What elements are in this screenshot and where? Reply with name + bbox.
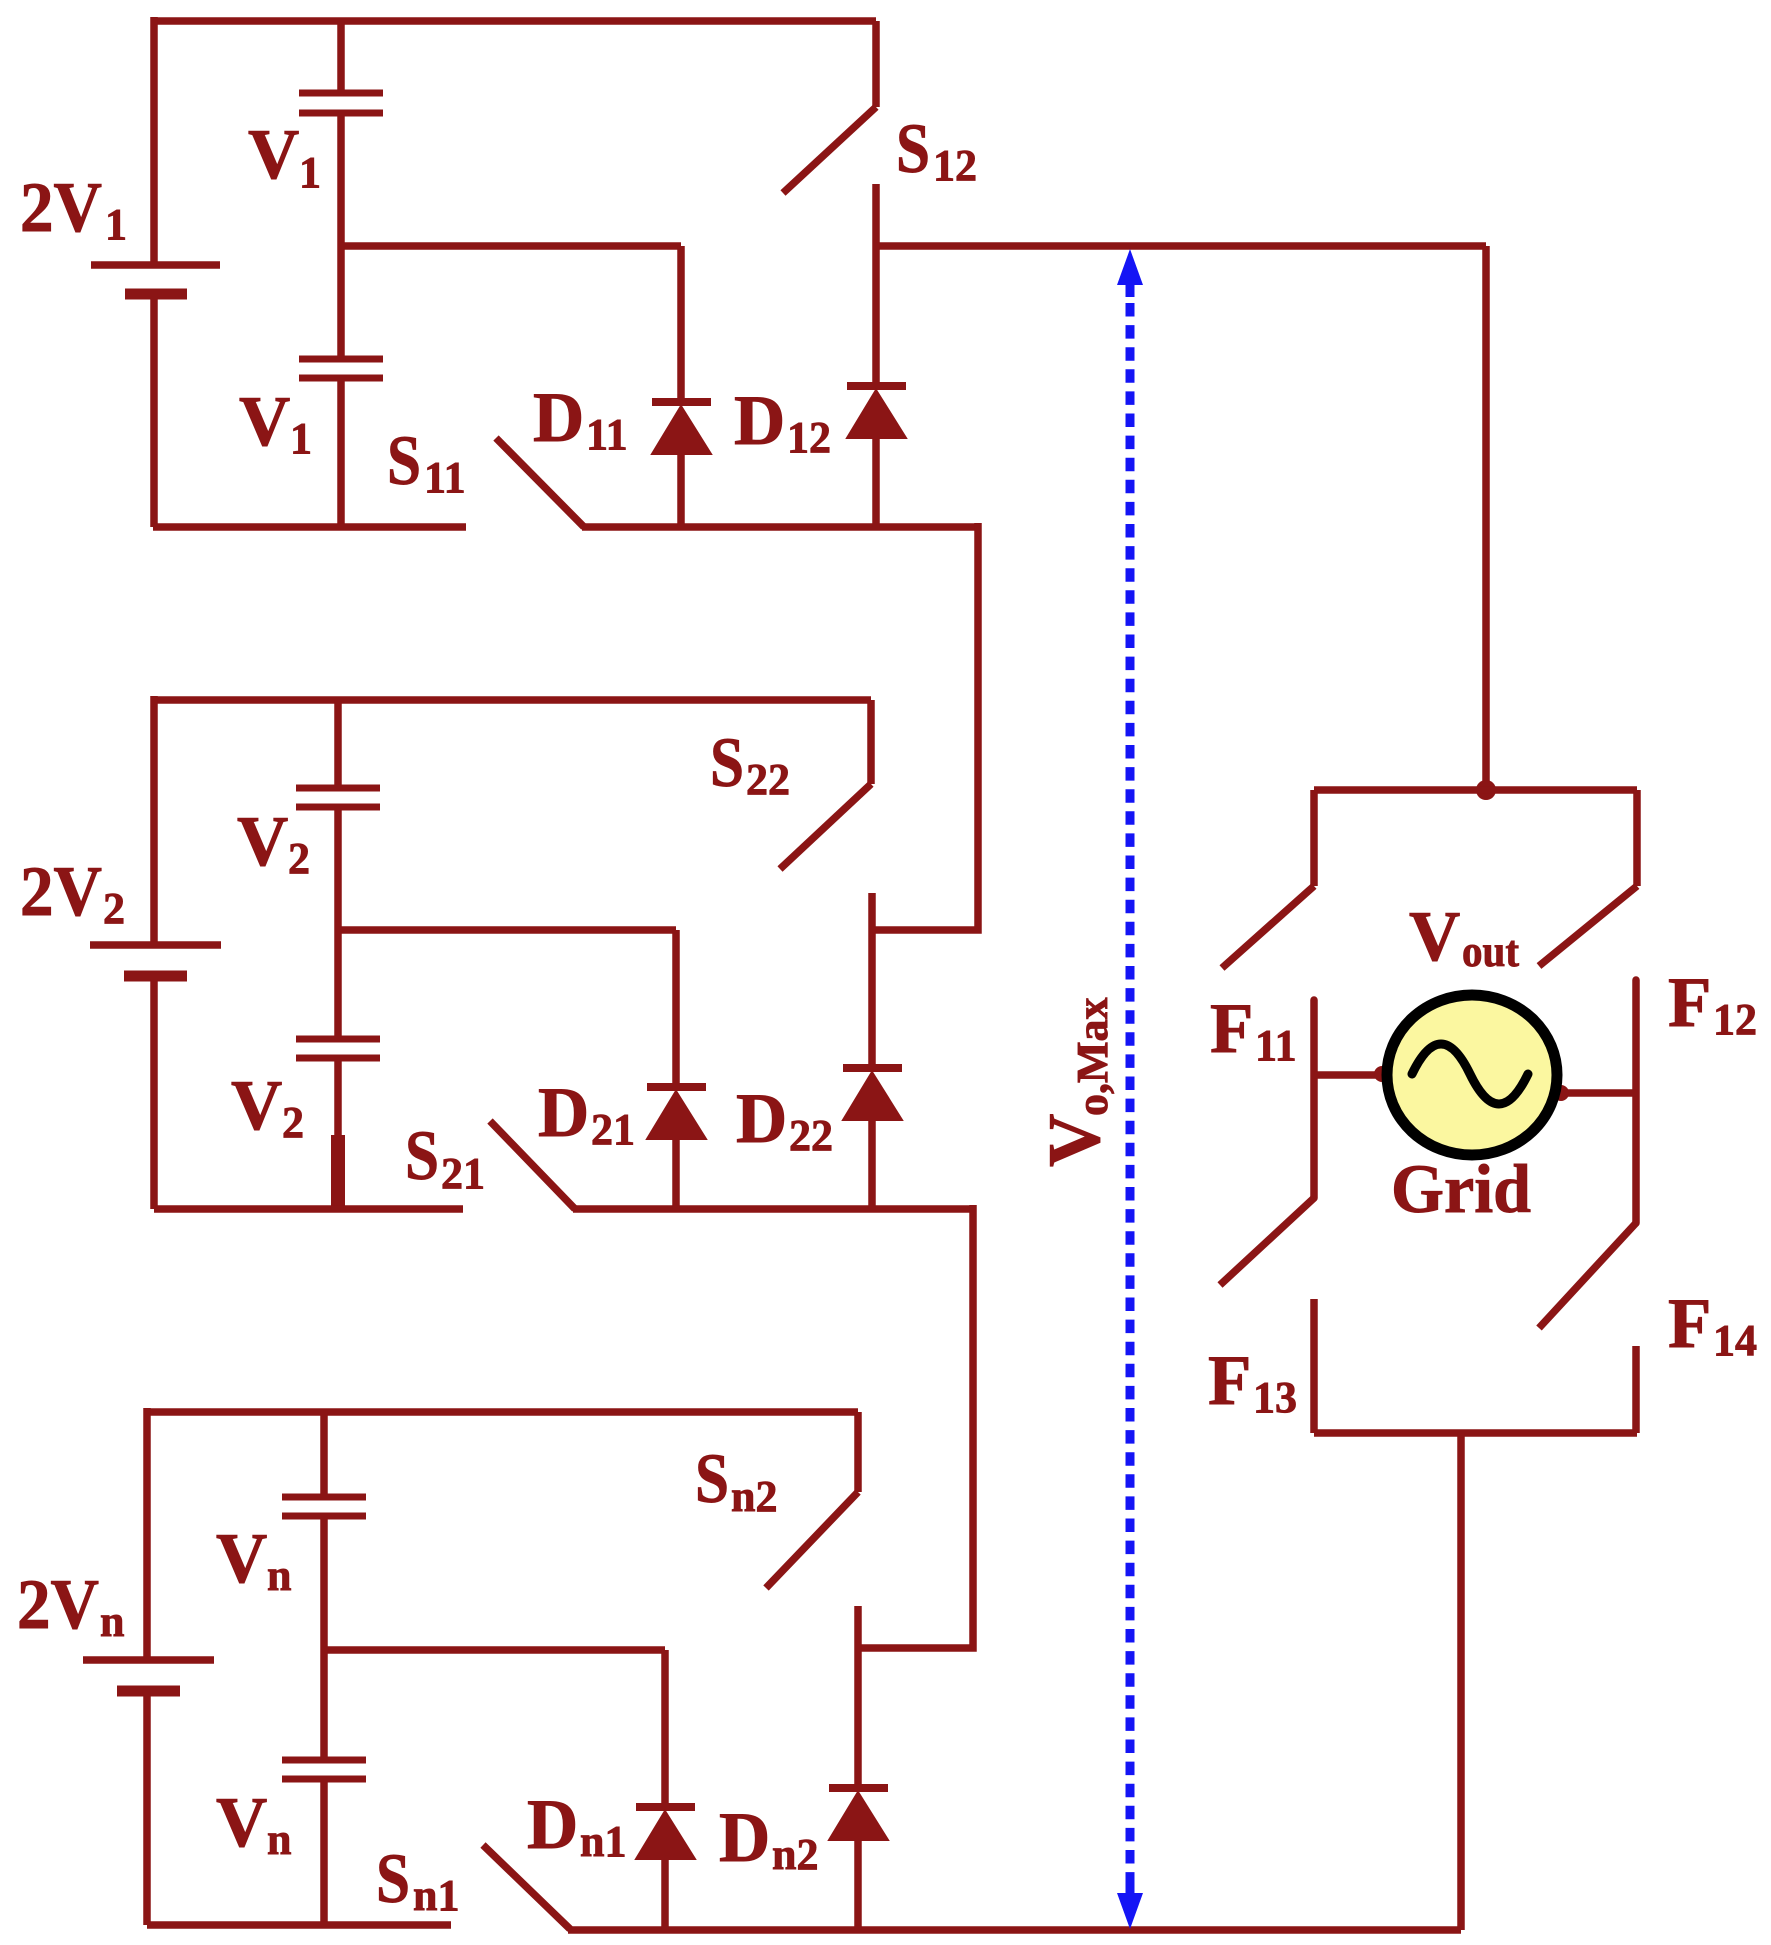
wire capacitor V1 upper to mid node bbox=[337, 116, 345, 246]
label Dn2 bbox=[719, 1799, 818, 1879]
capacitor Vn upper cell n bbox=[282, 1497, 366, 1516]
wire left branch cell 1 lower bbox=[150, 297, 158, 527]
battery 2V1 bbox=[91, 265, 220, 294]
svg-text:11: 11 bbox=[586, 410, 628, 459]
svg-text:n: n bbox=[267, 1551, 291, 1600]
wire D21 riser bbox=[672, 930, 680, 1085]
svg-text:D: D bbox=[533, 379, 584, 457]
svg-text:14: 14 bbox=[1713, 1316, 1757, 1365]
node grid right bbox=[1553, 1085, 1569, 1101]
diode D21 bbox=[647, 1087, 706, 1209]
svg-text:11: 11 bbox=[1255, 1021, 1297, 1070]
svg-text:V: V bbox=[1034, 1114, 1116, 1167]
label V1 upper cell 1 bbox=[248, 116, 321, 197]
wire mid node to lower capacitor cell n bbox=[320, 1650, 328, 1757]
svg-text:Grid: Grid bbox=[1391, 1151, 1531, 1227]
wire left branch cell n upper bbox=[143, 1408, 151, 1657]
wire capacitor V2 lower to bottom rail bbox=[334, 1061, 342, 1209]
wire Dn1 riser bbox=[661, 1650, 669, 1805]
svg-text:n: n bbox=[100, 1597, 124, 1646]
capacitor V2 upper cell 2 bbox=[296, 788, 380, 807]
wire bottom rail cell n right bbox=[568, 1926, 1461, 1934]
arrowhead bottom bbox=[1117, 1881, 1143, 1929]
wire top rail cell 2 bbox=[154, 696, 871, 704]
wire grid right lead bbox=[1558, 1089, 1636, 1097]
svg-text:S: S bbox=[387, 422, 421, 500]
label S12 bbox=[896, 110, 977, 190]
capacitor V1 upper cell 1 bbox=[299, 93, 383, 113]
wire left branch cell n lower bbox=[143, 1694, 151, 1925]
label F11 bbox=[1210, 990, 1297, 1070]
wire capacitor branch cell n top bbox=[320, 1412, 328, 1494]
switch Sn2 bbox=[766, 1412, 858, 1650]
wire D11 riser bbox=[677, 246, 685, 400]
svg-text:1: 1 bbox=[290, 414, 312, 463]
wire capacitor Vn upper to mid node bbox=[320, 1519, 328, 1650]
svg-text:21: 21 bbox=[441, 1149, 485, 1198]
svg-text:22: 22 bbox=[789, 1111, 833, 1160]
wire H-bridge top rail bbox=[1314, 786, 1637, 794]
switch F13 bbox=[1220, 1198, 1314, 1433]
svg-text:2: 2 bbox=[103, 884, 125, 933]
switch S22 bbox=[780, 700, 872, 930]
svg-text:D: D bbox=[736, 1080, 787, 1158]
svg-text:n2: n2 bbox=[731, 1472, 777, 1521]
battery 2V2 bbox=[90, 945, 221, 976]
svg-text:2: 2 bbox=[288, 834, 310, 883]
wire bottom rail cell n left bbox=[147, 1921, 451, 1929]
wire capacitor branch cell 1 top bbox=[337, 21, 345, 90]
svg-text:S: S bbox=[710, 724, 744, 802]
wire left branch cell 2 upper bbox=[150, 696, 158, 942]
svg-text:1: 1 bbox=[105, 200, 127, 249]
wire mid node rail cell n bbox=[324, 1646, 665, 1654]
wire mid node rail cell 2 bbox=[338, 926, 676, 934]
svg-text:12: 12 bbox=[933, 141, 977, 190]
wire grid left lead bbox=[1314, 1071, 1381, 1079]
wire bottom rail cell 1 left bbox=[153, 523, 466, 531]
wire left branch cell 2 lower bbox=[150, 979, 158, 1209]
svg-text:2V: 2V bbox=[20, 853, 102, 931]
wire capacitor V2 upper to mid node bbox=[334, 810, 342, 930]
svg-text:V: V bbox=[216, 1784, 267, 1862]
wire capacitor branch cell 2 top bbox=[334, 700, 342, 785]
wire Dn2 riser bbox=[854, 1650, 862, 1786]
diode D11 bbox=[652, 402, 711, 527]
wire mid node to lower capacitor cell 2 bbox=[334, 930, 342, 1036]
label D12 bbox=[734, 382, 831, 462]
svg-text:D: D bbox=[734, 382, 785, 460]
svg-text:V: V bbox=[216, 1520, 267, 1598]
wire H-bridge bottom rail bbox=[1314, 1429, 1637, 1437]
wire left branch cell 1 upper bbox=[150, 17, 158, 262]
node grid left bbox=[1374, 1066, 1390, 1082]
wire bottom rail cell 2 right bbox=[573, 1205, 973, 1213]
diode D22 bbox=[843, 1068, 902, 1209]
label V2 lower cell 2 bbox=[231, 1067, 304, 1147]
svg-text:S: S bbox=[405, 1117, 439, 1195]
label 2V2 bbox=[20, 853, 125, 933]
label Sn2 bbox=[695, 1440, 777, 1521]
node H-bridge top junction bbox=[1476, 780, 1496, 800]
label Vn upper cell n bbox=[216, 1520, 291, 1600]
label Grid bbox=[1391, 1151, 1531, 1227]
diode Dn2 bbox=[829, 1788, 888, 1930]
wire thick contact bar cell 2 bbox=[331, 1135, 345, 1209]
svg-text:n2: n2 bbox=[772, 1830, 818, 1879]
label D21 bbox=[538, 1074, 635, 1154]
svg-text:22: 22 bbox=[746, 755, 790, 804]
switch S21 bbox=[490, 1121, 575, 1209]
label 2Vn bbox=[17, 1566, 124, 1646]
wire bottom rail cell 2 left bbox=[154, 1205, 463, 1213]
label Vout bbox=[1409, 898, 1519, 976]
label S11 bbox=[387, 422, 466, 502]
svg-text:13: 13 bbox=[1253, 1373, 1297, 1422]
svg-text:out: out bbox=[1462, 927, 1519, 976]
svg-text:2V: 2V bbox=[17, 1566, 99, 1644]
svg-text:o,Max: o,Max bbox=[1068, 997, 1117, 1116]
svg-text:D: D bbox=[527, 1786, 578, 1864]
svg-text:F: F bbox=[1668, 1285, 1711, 1363]
wire S12 output rail to H-bridge bbox=[876, 242, 1486, 250]
label Vo,Max rotated bbox=[1034, 997, 1117, 1167]
wire D22 riser bbox=[868, 930, 876, 1066]
svg-text:V: V bbox=[248, 116, 299, 194]
switch F14 bbox=[1539, 1223, 1636, 1433]
svg-text:V: V bbox=[239, 383, 290, 461]
wire H-bridge left column bbox=[1310, 1000, 1318, 1198]
label V1 lower cell 1 bbox=[239, 383, 312, 463]
svg-text:S: S bbox=[376, 1840, 410, 1918]
svg-text:F: F bbox=[1208, 1342, 1251, 1420]
label D11 bbox=[533, 379, 628, 459]
svg-text:S: S bbox=[695, 1440, 729, 1518]
svg-text:F: F bbox=[1668, 964, 1711, 1042]
svg-text:2V: 2V bbox=[20, 169, 102, 247]
label F12 bbox=[1668, 964, 1757, 1044]
label Sn1 bbox=[376, 1840, 459, 1920]
svg-text:F: F bbox=[1210, 990, 1253, 1068]
battery 2Vn bbox=[83, 1660, 214, 1691]
svg-text:V: V bbox=[1409, 898, 1460, 976]
label Dn1 bbox=[527, 1786, 626, 1866]
label S21 bbox=[405, 1117, 485, 1198]
capacitor V1 lower cell 1 bbox=[299, 359, 383, 378]
switch Sn1 bbox=[483, 1845, 570, 1929]
label F14 bbox=[1668, 1285, 1757, 1365]
sine wave symbol bbox=[1412, 1044, 1528, 1104]
switch S11 bbox=[496, 438, 584, 527]
svg-text:V: V bbox=[231, 1067, 282, 1145]
wire H-bridge output drop bbox=[1457, 1433, 1465, 1930]
svg-text:12: 12 bbox=[1713, 995, 1757, 1044]
svg-text:D: D bbox=[538, 1074, 589, 1152]
wire top rail cell 1 bbox=[153, 17, 876, 25]
svg-text:V: V bbox=[237, 803, 288, 881]
switch S12 bbox=[783, 21, 876, 246]
source Grid circle bbox=[1387, 995, 1557, 1155]
label S22 bbox=[710, 724, 790, 804]
label V2 upper cell 2 bbox=[237, 803, 310, 883]
svg-text:n1: n1 bbox=[580, 1817, 626, 1866]
switch F11 bbox=[1222, 790, 1314, 968]
svg-text:1: 1 bbox=[299, 148, 321, 197]
label F13 bbox=[1208, 1342, 1297, 1422]
svg-text:n: n bbox=[267, 1815, 291, 1864]
label D22 bbox=[736, 1080, 833, 1160]
capacitor V2 lower cell 2 bbox=[296, 1039, 380, 1058]
svg-text:S: S bbox=[896, 110, 930, 188]
wire H-bridge input drop bbox=[1482, 246, 1490, 790]
wire bottom rail cell 1 right bbox=[582, 523, 978, 531]
label Vn lower cell n bbox=[216, 1784, 291, 1864]
label 2V1 bbox=[20, 169, 127, 249]
svg-text:n1: n1 bbox=[413, 1871, 459, 1920]
wire mid node rail cell 1 bbox=[341, 242, 681, 250]
switch F12 bbox=[1539, 790, 1637, 966]
wire H-bridge right column bbox=[1632, 980, 1640, 1223]
wire mid node to lower capacitor cell 1 bbox=[337, 246, 345, 356]
wire capacitor Vn lower to bottom rail bbox=[320, 1782, 328, 1925]
svg-text:11: 11 bbox=[424, 453, 466, 502]
capacitor Vn lower cell n bbox=[282, 1760, 366, 1779]
diode D12 bbox=[847, 386, 906, 527]
wire connector cell 1 to cell 2 bbox=[872, 523, 978, 930]
arrow Vo,Max dashed measure line bbox=[1126, 303, 1135, 1882]
arrowhead top bbox=[1117, 249, 1143, 297]
svg-text:D: D bbox=[719, 1799, 770, 1877]
wire top rail cell n bbox=[147, 1408, 858, 1416]
wire connector cell 2 to cell n bbox=[858, 1205, 973, 1648]
wire capacitor V1 lower to bottom rail bbox=[337, 381, 345, 527]
wire D12 riser bbox=[872, 246, 880, 384]
svg-text:21: 21 bbox=[591, 1105, 635, 1154]
diode Dn1 bbox=[636, 1807, 695, 1930]
svg-text:12: 12 bbox=[787, 413, 831, 462]
svg-text:2: 2 bbox=[282, 1098, 304, 1147]
